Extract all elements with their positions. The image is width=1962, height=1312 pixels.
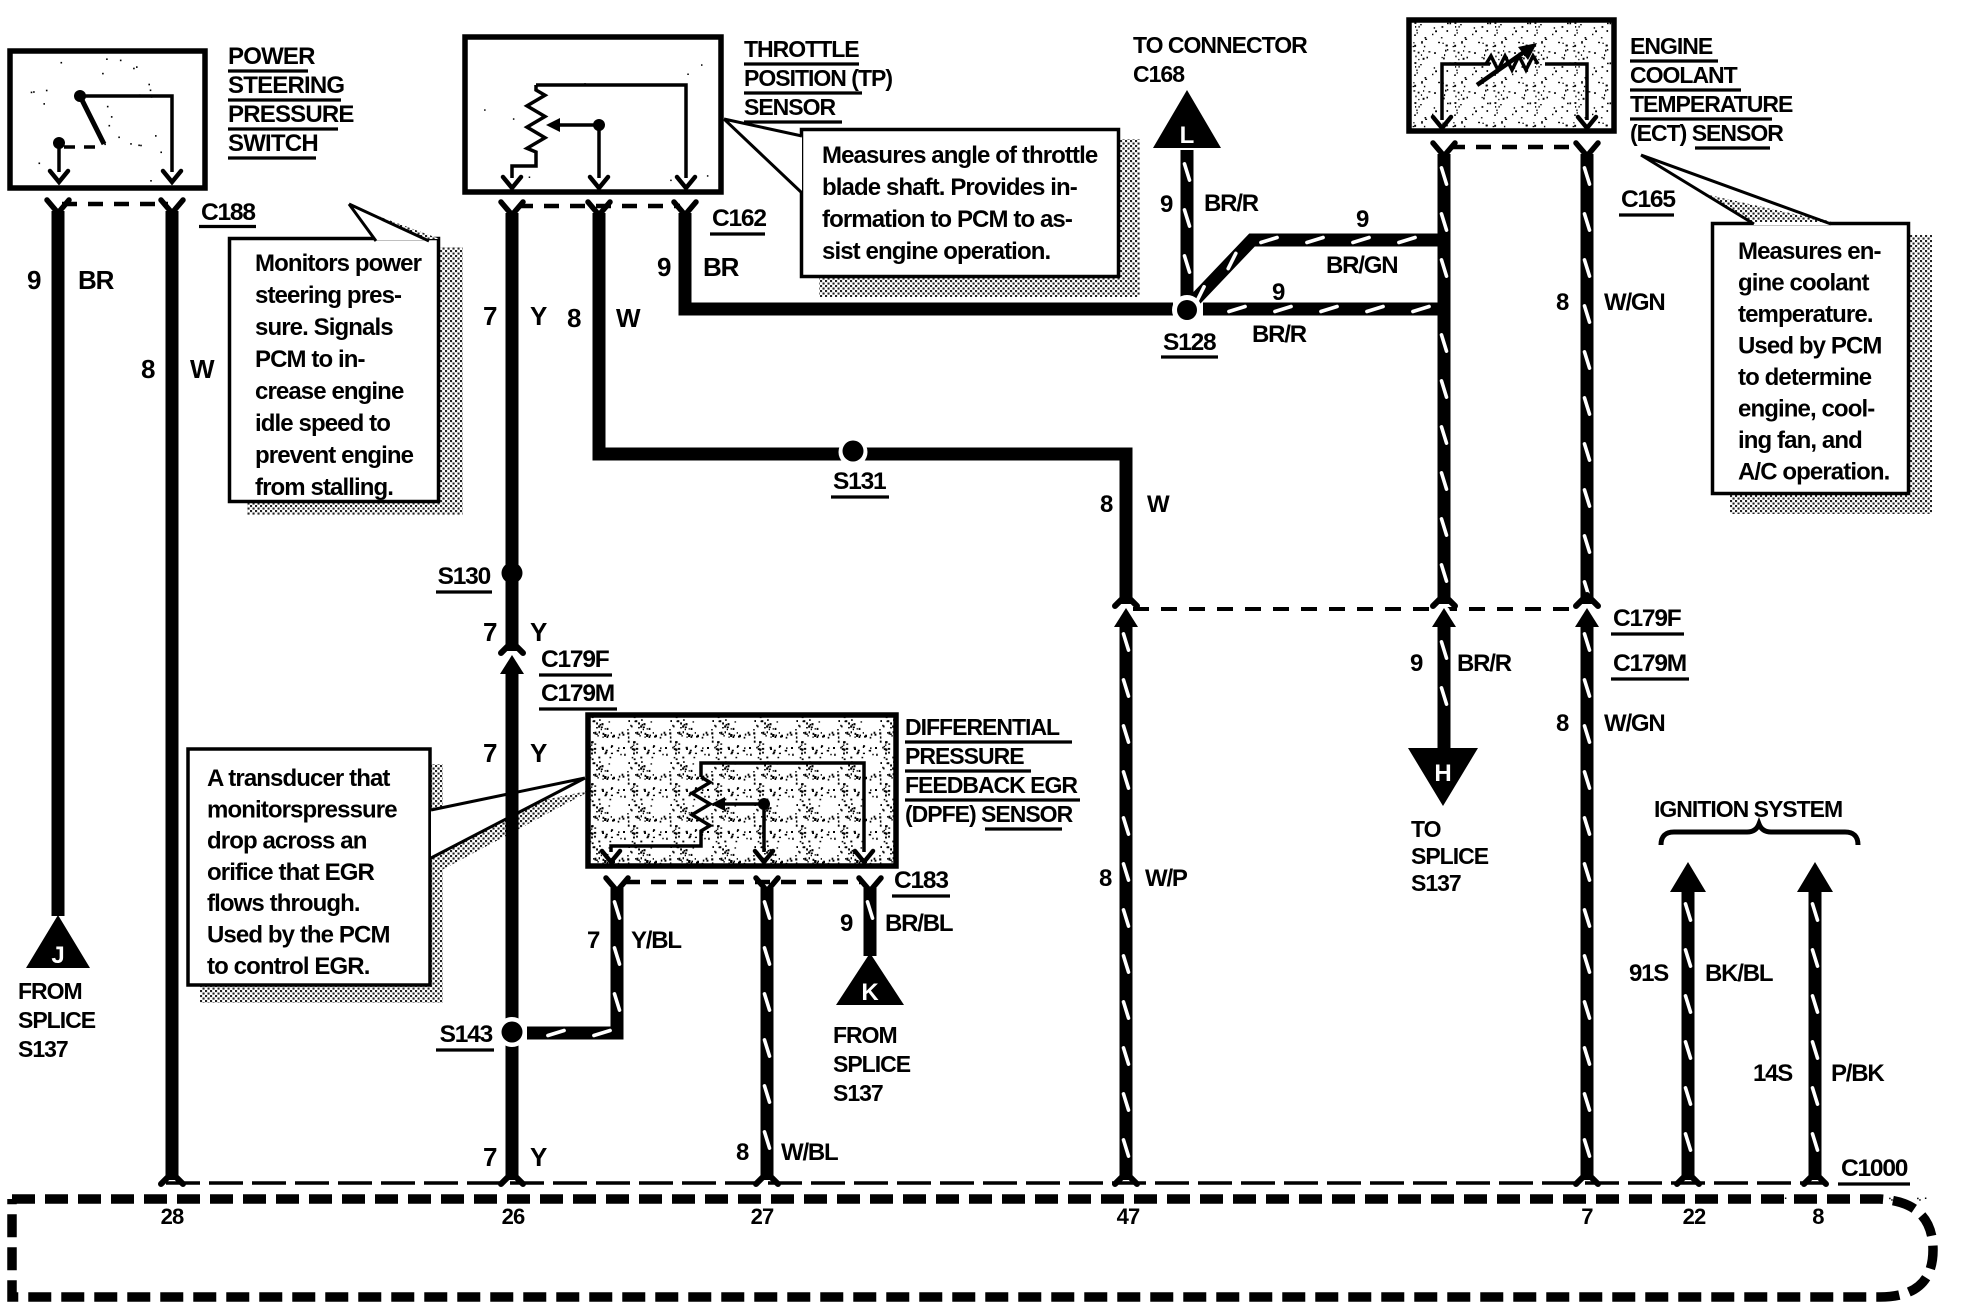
connector C179 break on W/GN wire bbox=[1575, 595, 1599, 627]
splice J triangle (from splice S137) bbox=[26, 915, 90, 969]
svg-text:monitorspressure: monitorspressure bbox=[207, 796, 397, 823]
svg-text:J: J bbox=[51, 942, 64, 969]
connector C183 label bbox=[892, 867, 950, 896]
wire 8 W/GN hatched from ECT right pin down to PCM pin 7 bbox=[1585, 154, 1590, 604]
svg-text:idle speed to: idle speed to bbox=[255, 410, 390, 437]
svg-text:7: 7 bbox=[587, 927, 600, 954]
svg-text:C179F: C179F bbox=[1613, 605, 1682, 632]
svg-text:7: 7 bbox=[483, 301, 497, 331]
svg-text:to determine: to determine bbox=[1738, 364, 1872, 391]
wire 9 BR/R hatched from S128 up to connector L bbox=[1185, 150, 1190, 305]
wire 9 BR from TP sensor to splice S128 bbox=[685, 213, 1173, 309]
svg-text:TO: TO bbox=[1411, 816, 1441, 842]
connector C1000 label bbox=[1838, 1155, 1910, 1184]
svg-text:BR/R: BR/R bbox=[1204, 190, 1259, 217]
wire label 91S BK/BL bbox=[1629, 960, 1773, 987]
ignition system arrow 2 bbox=[1797, 862, 1833, 892]
wire 14S P/BK hatched ignition feed to PCM pin 8 bbox=[1813, 890, 1818, 1180]
svg-text:Y: Y bbox=[530, 1142, 547, 1172]
splice S131 bbox=[839, 438, 868, 467]
connector C162 label bbox=[710, 205, 766, 234]
svg-text:9: 9 bbox=[1160, 191, 1173, 218]
svg-text:S137: S137 bbox=[1411, 870, 1461, 896]
svg-text:S130: S130 bbox=[438, 563, 491, 590]
splice S128 with white ring bbox=[1172, 295, 1202, 325]
wire label 9 BR/R (from S128) bbox=[1252, 279, 1307, 348]
svg-text:26: 26 bbox=[502, 1204, 525, 1229]
svg-text:IGNITION SYSTEM: IGNITION SYSTEM bbox=[1654, 796, 1842, 822]
ignition system label bbox=[1654, 796, 1842, 822]
wire label 7 Y (top) bbox=[483, 301, 547, 331]
svg-text:S131: S131 bbox=[833, 468, 886, 495]
svg-text:K: K bbox=[861, 979, 879, 1006]
svg-text:C179F: C179F bbox=[541, 646, 610, 673]
svg-text:COOLANT: COOLANT bbox=[1630, 62, 1738, 88]
wire 9 BR from PS switch down to splice J bbox=[52, 211, 65, 916]
svg-text:ing fan, and: ing fan, and bbox=[1738, 427, 1862, 454]
from splice S137 label (J) bbox=[18, 978, 96, 1062]
callout note: ECT sensor description bbox=[1641, 155, 1932, 514]
svg-text:28: 28 bbox=[161, 1204, 184, 1229]
scan noise patch near pin 8 bbox=[1770, 1193, 1935, 1221]
svg-text:8: 8 bbox=[1100, 491, 1113, 518]
to connector C168 label bbox=[1133, 32, 1308, 87]
wire label 9 BR bbox=[27, 265, 115, 295]
svg-text:22: 22 bbox=[1683, 1204, 1706, 1229]
wire label 9 BR/R (to L) bbox=[1160, 190, 1259, 218]
wire label 9 BR (TP) bbox=[657, 252, 740, 282]
svg-text:BR/R: BR/R bbox=[1457, 650, 1512, 677]
svg-text:BK/BL: BK/BL bbox=[1705, 960, 1773, 987]
connector C179F/C179M labels (left) bbox=[539, 646, 617, 709]
C1000 thin dashed connector line bbox=[166, 1181, 1826, 1185]
callout note: DPFE sensor description bbox=[188, 749, 592, 1003]
svg-text:from stalling.: from stalling. bbox=[255, 474, 393, 501]
throttle position sensor label bbox=[744, 36, 892, 122]
svg-text:47: 47 bbox=[1117, 1204, 1140, 1229]
callout note: power steering switch description bbox=[230, 204, 464, 515]
wire label 7 Y (bottom) bbox=[483, 1142, 547, 1172]
svg-text:formation to PCM to as-: formation to PCM to as- bbox=[822, 206, 1073, 233]
splice S128 label bbox=[1161, 329, 1218, 357]
svg-text:Monitors power: Monitors power bbox=[255, 250, 422, 277]
svg-text:TEMPERATURE: TEMPERATURE bbox=[1630, 91, 1793, 117]
svg-text:Y: Y bbox=[530, 617, 547, 647]
svg-text:Y/BL: Y/BL bbox=[631, 927, 681, 954]
svg-text:H: H bbox=[1434, 760, 1451, 787]
svg-text:9: 9 bbox=[1272, 279, 1285, 306]
svg-text:FROM: FROM bbox=[18, 978, 82, 1004]
svg-text:prevent engine: prevent engine bbox=[255, 442, 414, 469]
svg-text:8: 8 bbox=[567, 303, 581, 333]
wire label 8 W (TP) bbox=[567, 303, 641, 333]
svg-text:BR/GN: BR/GN bbox=[1326, 252, 1397, 279]
wire label 8 W/P bbox=[1099, 865, 1188, 892]
splice S130 label bbox=[436, 563, 492, 592]
wire 8 W from TP sensor through S131 to W/P run bbox=[599, 213, 1126, 604]
svg-text:8: 8 bbox=[1099, 865, 1112, 892]
svg-text:engine, cool-: engine, cool- bbox=[1738, 396, 1875, 423]
svg-text:to control EGR.: to control EGR. bbox=[207, 953, 370, 980]
svg-text:C162: C162 bbox=[712, 205, 766, 232]
wire label 7 Y (second) bbox=[483, 617, 547, 647]
wire label 8 W bbox=[141, 354, 215, 384]
connector C179 dashed line (right section) bbox=[1133, 607, 1580, 611]
svg-text:W: W bbox=[1147, 491, 1170, 518]
svg-text:8: 8 bbox=[1556, 710, 1569, 737]
wire label 8 W/BL bbox=[736, 1139, 838, 1166]
svg-text:W/GN: W/GN bbox=[1604, 710, 1665, 737]
DPFE sensor label bbox=[905, 714, 1080, 829]
to splice S137 label (H) bbox=[1411, 816, 1489, 896]
svg-text:S137: S137 bbox=[833, 1080, 883, 1106]
svg-text:THROTTLE: THROTTLE bbox=[744, 36, 859, 62]
svg-text:C179M: C179M bbox=[1613, 650, 1686, 677]
svg-text:BR: BR bbox=[78, 265, 115, 295]
svg-text:PCM to in-: PCM to in- bbox=[255, 346, 366, 373]
ignition system arrow 1 bbox=[1670, 862, 1706, 892]
svg-text:steering pres-: steering pres- bbox=[255, 282, 402, 309]
svg-text:C179M: C179M bbox=[541, 680, 614, 707]
wire label 8 W (S131) bbox=[1100, 491, 1170, 518]
svg-text:SPLICE: SPLICE bbox=[18, 1007, 96, 1033]
connector C165 dashed line and forks bbox=[1433, 143, 1598, 156]
svg-text:SPLICE: SPLICE bbox=[1411, 843, 1489, 869]
svg-text:POSITION (TP): POSITION (TP) bbox=[744, 65, 892, 91]
svg-text:W: W bbox=[190, 354, 215, 384]
wire 9 BR/BL hatched stub from DPFE to splice K bbox=[868, 888, 873, 956]
connector C179 break on W/P wire bbox=[1114, 595, 1138, 627]
wire 9 BR/R hatched from S128 right to vertical run bbox=[1203, 307, 1450, 312]
splice S143 with white ring bbox=[497, 1017, 527, 1047]
svg-text:Used by PCM: Used by PCM bbox=[1738, 333, 1881, 360]
svg-text:SPLICE: SPLICE bbox=[833, 1051, 911, 1077]
splice S130 bbox=[502, 563, 523, 584]
svg-text:9: 9 bbox=[27, 265, 41, 295]
connector C179F/C179M labels (right) bbox=[1611, 605, 1689, 679]
splice S143 label bbox=[436, 1021, 494, 1050]
svg-text:DIFFERENTIAL: DIFFERENTIAL bbox=[905, 714, 1060, 740]
splice K triangle (from splice S137) bbox=[836, 953, 904, 1006]
svg-text:SWITCH: SWITCH bbox=[228, 130, 318, 157]
connector C179 break on BR/R wire bbox=[1432, 595, 1456, 627]
wire label 14S P/BK bbox=[1753, 1060, 1885, 1087]
svg-text:S128: S128 bbox=[1163, 329, 1216, 356]
engine coolant temperature sensor label bbox=[1630, 33, 1793, 148]
wire 9 BR/GN hatched diagonal from S128 to ECT wire bbox=[1192, 238, 1450, 304]
splice H triangle (to splice S137) bbox=[1408, 748, 1478, 806]
ignition system brace bbox=[1661, 824, 1858, 845]
svg-text:9: 9 bbox=[1356, 206, 1369, 233]
svg-text:FEEDBACK EGR: FEEDBACK EGR bbox=[905, 772, 1078, 798]
PCM dashed box bbox=[12, 1199, 1933, 1297]
wire 8 W from PS switch to PCM pin 28 bbox=[166, 211, 179, 1180]
connector C165 label bbox=[1619, 186, 1675, 215]
svg-text:ENGINE: ENGINE bbox=[1630, 33, 1713, 59]
connector C162 dashed line and forks bbox=[501, 202, 696, 215]
connector L arrow to connector C168 bbox=[1153, 90, 1221, 149]
connector C188 label bbox=[199, 199, 256, 227]
svg-text:C188: C188 bbox=[201, 199, 255, 226]
svg-text:27: 27 bbox=[751, 1204, 774, 1229]
wire label 7 Y/BL bbox=[587, 927, 681, 954]
svg-text:BR/R: BR/R bbox=[1252, 321, 1307, 348]
wire label 9 BR/GN bbox=[1326, 206, 1397, 279]
svg-text:W/GN: W/GN bbox=[1604, 289, 1665, 316]
power steering pressure switch box bbox=[10, 51, 205, 188]
svg-text:C168: C168 bbox=[1133, 61, 1185, 87]
svg-text:P/BK: P/BK bbox=[1831, 1060, 1885, 1087]
svg-text:14S: 14S bbox=[1753, 1060, 1793, 1087]
from splice S137 label (K) bbox=[833, 1022, 911, 1106]
wire 8 W/P hatched down to PCM pin 47 bbox=[1124, 620, 1129, 1180]
svg-text:W/P: W/P bbox=[1145, 865, 1188, 892]
svg-text:BR/BL: BR/BL bbox=[885, 910, 953, 937]
svg-text:Y: Y bbox=[530, 738, 547, 768]
wire 91S BK/BL hatched ignition feed to PCM pin 22 bbox=[1686, 890, 1691, 1180]
svg-text:91S: 91S bbox=[1629, 960, 1669, 987]
potentiometer inside DPFE sensor bbox=[602, 763, 873, 862]
wire label 9 BR/R (lower) bbox=[1410, 650, 1512, 677]
svg-text:9: 9 bbox=[657, 252, 671, 282]
svg-text:Used by the PCM: Used by the PCM bbox=[207, 922, 390, 949]
svg-text:L: L bbox=[1180, 122, 1195, 149]
differential pressure feedback EGR sensor box bbox=[588, 715, 896, 866]
thermistor symbol inside ECT sensor bbox=[1433, 43, 1596, 128]
svg-text:orifice that EGR: orifice that EGR bbox=[207, 859, 375, 886]
wire label 8 W/GN (upper) bbox=[1556, 289, 1665, 316]
svg-text:7: 7 bbox=[1581, 1204, 1593, 1229]
wire label 8 W/GN (lower) bbox=[1556, 710, 1665, 737]
svg-text:W: W bbox=[616, 303, 641, 333]
callout note: throttle position sensor description bbox=[724, 119, 1140, 297]
svg-text:7: 7 bbox=[483, 738, 497, 768]
svg-text:sist engine operation.: sist engine operation. bbox=[822, 238, 1050, 265]
wire 8 W/BL hatched from DPFE to PCM pin 27 bbox=[765, 888, 770, 1180]
svg-text:Measures en-: Measures en- bbox=[1738, 238, 1882, 265]
svg-text:FROM: FROM bbox=[833, 1022, 897, 1048]
throttle position sensor box bbox=[465, 37, 721, 192]
svg-text:9: 9 bbox=[1410, 650, 1423, 677]
PCM pin numbers bbox=[161, 1204, 1825, 1229]
svg-text:C1000: C1000 bbox=[1841, 1155, 1908, 1182]
svg-text:8: 8 bbox=[141, 354, 155, 384]
svg-text:PRESSURE: PRESSURE bbox=[905, 743, 1024, 769]
svg-text:sure. Signals: sure. Signals bbox=[255, 314, 393, 341]
svg-text:crease engine: crease engine bbox=[255, 378, 404, 405]
engine coolant temperature sensor box bbox=[1409, 20, 1614, 131]
svg-text:temperature.: temperature. bbox=[1738, 301, 1873, 328]
svg-text:7: 7 bbox=[483, 1142, 497, 1172]
svg-text:BR: BR bbox=[703, 252, 740, 282]
svg-text:POWER: POWER bbox=[228, 43, 315, 70]
svg-text:PRESSURE: PRESSURE bbox=[228, 101, 354, 128]
svg-text:STEERING: STEERING bbox=[228, 72, 344, 99]
svg-text:(ECT) SENSOR: (ECT) SENSOR bbox=[1630, 120, 1784, 146]
svg-text:TO CONNECTOR: TO CONNECTOR bbox=[1133, 32, 1308, 58]
wire label 9 BR/BL bbox=[840, 910, 953, 937]
svg-text:8: 8 bbox=[736, 1139, 749, 1166]
svg-text:8: 8 bbox=[1556, 289, 1569, 316]
potentiometer inside TP sensor bbox=[503, 85, 695, 188]
svg-text:7: 7 bbox=[483, 617, 497, 647]
switch symbol inside PS switch bbox=[50, 90, 181, 182]
svg-text:W/BL: W/BL bbox=[781, 1139, 838, 1166]
svg-text:S143: S143 bbox=[440, 1021, 493, 1048]
svg-text:9: 9 bbox=[840, 910, 853, 937]
svg-text:gine coolant: gine coolant bbox=[1738, 270, 1869, 297]
wire 7 Y from TP sensor down to PCM pin 26 bbox=[506, 213, 519, 651]
svg-text:A transducer that: A transducer that bbox=[207, 765, 390, 792]
connector C188 dashed line and forks bbox=[47, 200, 183, 213]
svg-text:A/C operation.: A/C operation. bbox=[1738, 459, 1890, 486]
svg-text:S137: S137 bbox=[18, 1036, 68, 1062]
svg-text:flows through.: flows through. bbox=[207, 890, 360, 917]
svg-text:Measures angle of throttle: Measures angle of throttle bbox=[822, 142, 1098, 169]
svg-text:drop across an: drop across an bbox=[207, 828, 367, 855]
svg-text:SENSOR: SENSOR bbox=[744, 94, 837, 120]
wire label 7 Y (third) bbox=[483, 738, 547, 768]
wire 7 Y/BL hatched from DPFE to splice S143 bbox=[527, 888, 620, 1036]
power steering pressure switch label bbox=[228, 43, 354, 158]
connector C179F/C179M break on Y wire bbox=[500, 642, 524, 674]
svg-text:8: 8 bbox=[1812, 1204, 1824, 1229]
splice S131 label bbox=[831, 468, 889, 497]
svg-text:(DPFE) SENSOR: (DPFE) SENSOR bbox=[905, 801, 1074, 827]
connector C183 dashed line and forks bbox=[606, 878, 881, 891]
svg-text:C165: C165 bbox=[1621, 186, 1675, 213]
wire BR/GN-BR/R vertical hatched from ECT left pin down to splice H bbox=[1442, 154, 1447, 240]
svg-text:blade shaft. Provides in-: blade shaft. Provides in- bbox=[822, 174, 1078, 201]
svg-text:Y: Y bbox=[530, 301, 547, 331]
svg-text:C183: C183 bbox=[894, 867, 948, 894]
